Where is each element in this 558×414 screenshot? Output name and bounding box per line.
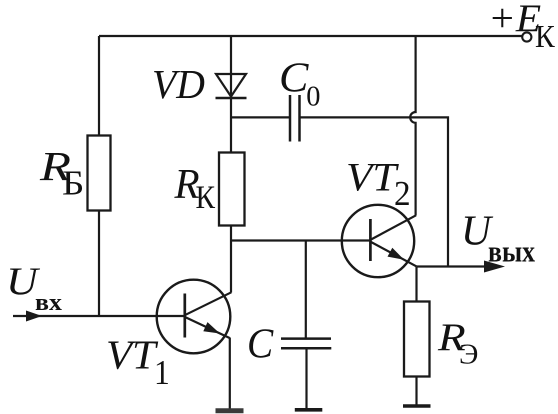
wire: VT2 collector riser with hop over bootstrap wire xyxy=(410,36,415,216)
capacitor C0 plates xyxy=(289,95,292,142)
wire: collector node to VT2 base xyxy=(231,239,370,241)
transistor VT2 circle xyxy=(342,205,414,277)
VT1 emitter arrow xyxy=(203,322,220,333)
capacitor C plates xyxy=(281,337,331,340)
resistor RБ xyxy=(88,136,111,211)
svg-text:VT: VT xyxy=(106,332,159,378)
svg-text:вх: вх xyxy=(35,289,62,316)
wire: output node down to RЭ xyxy=(415,267,417,303)
svg-text:C: C xyxy=(279,55,309,102)
wire: rail down through diode VD to RК xyxy=(230,36,232,153)
wire: rail down to RБ xyxy=(98,36,100,136)
input arrow head Uвх xyxy=(26,311,42,322)
wire: VT1 emitter to ground xyxy=(229,338,231,411)
svg-text:VT: VT xyxy=(346,154,399,199)
svg-text:0: 0 xyxy=(306,80,320,112)
svg-text:C: C xyxy=(247,321,274,368)
resistor RК xyxy=(219,153,245,226)
wire: input line to VT1 base xyxy=(13,315,185,317)
svg-text:К: К xyxy=(196,180,216,216)
VT2 emitter lead xyxy=(371,242,416,266)
terminal +Ek open circle xyxy=(522,32,531,41)
svg-text:Э: Э xyxy=(459,339,478,371)
wire: C tap from base wire down to capacitor xyxy=(305,241,307,339)
VT1 emitter lead xyxy=(186,317,230,338)
resistor RЭ xyxy=(404,302,430,377)
svg-text:VD: VD xyxy=(152,61,205,107)
ground bar under VT1 xyxy=(216,408,244,413)
VT2 base bar xyxy=(369,219,372,261)
ground bar under RЭ xyxy=(403,404,431,408)
wire: +Ek supply rail xyxy=(99,35,522,37)
svg-text:К: К xyxy=(535,19,555,54)
output arrow head Uвых xyxy=(484,261,505,273)
svg-text:1: 1 xyxy=(154,354,170,392)
svg-text:2: 2 xyxy=(394,174,411,213)
VT2 collector lead xyxy=(371,215,416,239)
wire: RК bottom to VT1 collector junction xyxy=(230,225,232,293)
wire: diode cathode tap to C0 left plate xyxy=(231,116,290,118)
svg-text:Б: Б xyxy=(62,165,84,203)
wire: C0 right plate to bootstrap corner and down to output node xyxy=(300,117,449,266)
diode VD triangle xyxy=(216,74,246,97)
wire: RЭ to ground xyxy=(415,376,417,405)
svg-text:вых: вых xyxy=(488,234,535,269)
VT1 collector lead xyxy=(186,292,232,315)
ground bar under C xyxy=(295,408,323,412)
wire: output line from emitter node xyxy=(416,265,492,267)
VT1 base bar xyxy=(183,294,186,338)
transistor VT1 circle xyxy=(157,280,231,354)
wire: RБ to input node xyxy=(98,210,100,316)
diode VD cathode bar xyxy=(216,97,247,100)
VT2 emitter arrow xyxy=(388,248,405,260)
wire: C bottom plate to ground xyxy=(305,348,307,409)
svg-text:+E: +E xyxy=(488,0,541,40)
